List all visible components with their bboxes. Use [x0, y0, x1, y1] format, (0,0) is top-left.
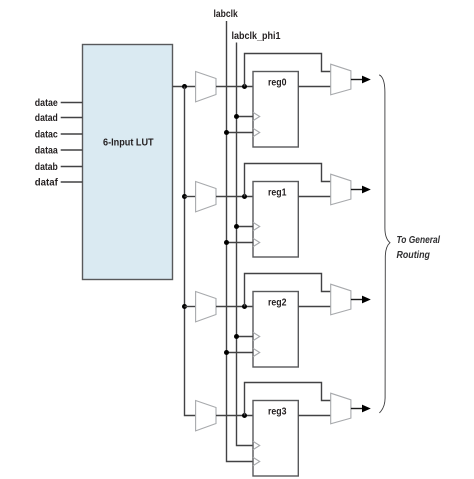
mux output-select group 3 — [331, 393, 351, 424]
brace to general routing — [379, 75, 390, 413]
svg-text:reg1: reg1 — [268, 186, 287, 198]
wire LUT bypass group 1 — [245, 164, 331, 197]
pin clock phi1 chevron group 1 — [253, 222, 260, 230]
mux input-select group 1 — [196, 182, 216, 212]
wire trunk vertical — [185, 87, 196, 416]
arrowhead output group 3 — [362, 405, 371, 413]
wire D input group 2 — [216, 306, 253, 308]
wire output group 1 — [351, 189, 363, 191]
svg-text:reg2: reg2 — [268, 296, 287, 308]
svg-text:datac: datac — [35, 129, 58, 141]
wire D input group 3 — [216, 415, 253, 417]
svg-text:datae: datae — [35, 97, 58, 109]
svg-text:dataa: dataa — [35, 145, 58, 157]
node D junction group 0 — [242, 84, 247, 89]
wire reg1 output — [298, 196, 330, 198]
arrowhead output group 0 — [362, 76, 371, 84]
wire labclk to reg2 — [227, 352, 254, 354]
arrowhead output group 2 — [362, 296, 371, 304]
pin clock chevron group 0 — [253, 128, 260, 136]
wire trunk branch group 2 — [185, 306, 196, 308]
register reg3 — [253, 401, 298, 477]
node labclk junction group 1 — [224, 240, 229, 245]
svg-text:To General: To General — [397, 235, 441, 246]
mux input-select group 3 — [196, 401, 216, 431]
mux output-select group 0 — [331, 64, 351, 95]
wire labclk to reg0 — [227, 132, 254, 134]
pin clock phi1 chevron group 3 — [253, 441, 260, 449]
svg-text:datab: datab — [35, 161, 58, 173]
node labclk_phi1 junction group 1 — [234, 224, 239, 229]
node D junction group 3 — [242, 413, 247, 418]
wire labclk_phi1 vertical — [237, 43, 254, 446]
svg-text:reg3: reg3 — [268, 405, 287, 417]
svg-text:dataf: dataf — [35, 177, 58, 189]
svg-text:reg0: reg0 — [268, 76, 287, 88]
wire reg2 output — [298, 306, 330, 308]
pin clock phi1 chevron group 2 — [253, 332, 260, 340]
register reg2 — [253, 292, 298, 368]
pin clock chevron group 2 — [253, 348, 260, 356]
svg-text:Routing: Routing — [397, 250, 430, 261]
svg-text:6-Input LUT: 6-Input LUT — [103, 137, 154, 149]
wire labclk_phi1 to reg2 — [237, 336, 254, 338]
wire labclk_phi1 to reg1 — [237, 226, 254, 228]
node LUT output junction — [182, 84, 187, 89]
wire labclk to reg1 — [227, 242, 254, 244]
pin clock phi1 chevron group 0 — [253, 112, 260, 120]
wire D input group 1 — [216, 196, 253, 198]
register reg0 — [253, 72, 298, 148]
node D junction group 2 — [242, 304, 247, 309]
wire output group 2 — [351, 299, 363, 301]
mux input-select group 2 — [196, 292, 216, 322]
arrowhead output group 1 — [362, 186, 371, 194]
pin clock chevron group 1 — [253, 238, 260, 246]
node labclk junction group 2 — [224, 350, 229, 355]
LUT block 6-Input LUT — [83, 45, 173, 280]
node trunk junction group 2 — [182, 304, 187, 309]
wire reg3 output — [298, 415, 330, 417]
mux output-select group 2 — [331, 284, 351, 315]
wire LUT bypass group 0 — [245, 54, 331, 87]
wire LUT bypass group 3 — [245, 383, 331, 416]
pin clock chevron group 3 — [253, 457, 260, 465]
mux input-select group 0 — [196, 72, 216, 102]
svg-text:labclk_phi1: labclk_phi1 — [232, 30, 281, 42]
wire trunk branch group 1 — [185, 196, 196, 198]
wire LUT output — [173, 86, 196, 88]
wire labclk vertical — [227, 21, 254, 462]
wire labclk_phi1 to reg0 — [237, 116, 254, 118]
node labclk_phi1 junction group 0 — [234, 114, 239, 119]
svg-text:labclk: labclk — [214, 8, 238, 20]
wire reg0 output — [298, 86, 330, 88]
wire output group 0 — [351, 79, 363, 81]
wire LUT bypass group 2 — [245, 274, 331, 307]
node labclk junction group 0 — [224, 130, 229, 135]
wire D input group 0 — [216, 86, 253, 88]
node trunk junction group 1 — [182, 194, 187, 199]
mux output-select group 1 — [331, 174, 351, 205]
svg-text:datad: datad — [35, 112, 58, 124]
node labclk_phi1 junction group 2 — [234, 334, 239, 339]
node D junction group 1 — [242, 194, 247, 199]
register reg1 — [253, 182, 298, 258]
wire output group 3 — [351, 408, 363, 410]
